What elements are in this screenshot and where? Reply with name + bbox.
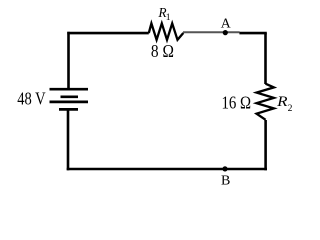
resistor R2 zigzag [257, 84, 274, 120]
svg-text:8 Ω: 8 Ω [151, 41, 174, 61]
svg-text:B: B [221, 174, 230, 189]
battery 48 V : long plate 1 [50, 88, 89, 91]
battery: short plate 2 [59, 108, 78, 111]
battery: long plate 2 [50, 101, 89, 104]
svg-text:R: R [276, 94, 288, 110]
wire: top thin gray segment [183, 31, 240, 33]
wire: right vertical upper segment [264, 33, 267, 84]
wire: top-left horizontal segment [67, 32, 149, 35]
svg-text:1: 1 [166, 12, 171, 23]
wire: right vertical lower segment [264, 120, 267, 170]
wire: left vertical segment below battery [67, 109, 70, 170]
wire: top-right black segment [239, 32, 266, 35]
resistor R1 zigzag [149, 23, 184, 39]
svg-text:2: 2 [288, 103, 293, 114]
svg-text:48 V: 48 V [17, 88, 45, 108]
svg-text:16 Ω: 16 Ω [222, 93, 252, 113]
wire: bottom horizontal segment [67, 168, 267, 171]
node B junction dot [222, 166, 227, 171]
node A junction dot [223, 30, 228, 35]
battery: short plate 1 [61, 95, 79, 98]
wire: left vertical segment (top stub of battery) [67, 32, 70, 89]
svg-text:A: A [221, 15, 231, 30]
